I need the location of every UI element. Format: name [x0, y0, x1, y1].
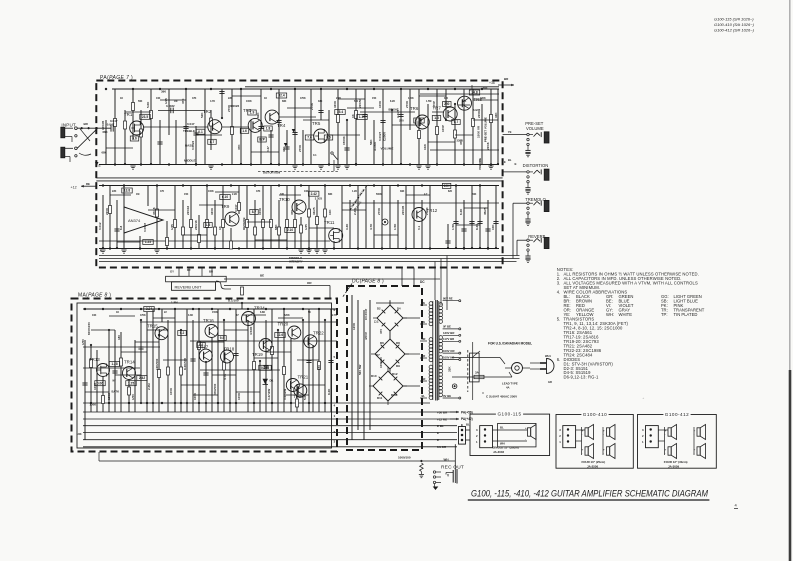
svg-text:220K: 220K	[477, 110, 481, 118]
svg-text:43K: 43K	[282, 146, 286, 152]
svg-text:G100-410: G100-410	[583, 412, 607, 417]
svg-text:+36: +36	[489, 81, 495, 85]
svg-text:TR24: TR24	[254, 306, 265, 311]
svg-text:TREBLE: TREBLE	[183, 129, 195, 133]
svg-text:250: 250	[444, 102, 450, 106]
svg-text:10K: 10K	[92, 314, 97, 317]
svg-text:0.6: 0.6	[132, 137, 137, 141]
svg-text:D.1/100: D.1/100	[228, 299, 239, 303]
svg-text:12K/500: 12K/500	[155, 358, 159, 370]
svg-text:2.2K: 2.2K	[336, 97, 341, 100]
svg-text:1/35: 1/35	[304, 224, 308, 230]
svg-text:5.6K: 5.6K	[146, 101, 150, 108]
svg-text:15K: 15K	[184, 193, 189, 196]
svg-text:DISTORTION: DISTORTION	[523, 163, 549, 168]
svg-text:BR: BR	[422, 354, 426, 358]
svg-text:1.06: 1.06	[416, 119, 422, 123]
svg-text:BL: BL	[500, 426, 504, 430]
svg-text:52K: 52K	[200, 112, 204, 118]
svg-text:RE: RE	[86, 182, 90, 186]
svg-text:150K VR: 150K VR	[476, 125, 480, 138]
svg-text:3.: 3.	[557, 281, 561, 286]
svg-text:10K: 10K	[156, 97, 161, 100]
svg-text:FOR U.S./CANADIAN MODEL: FOR U.S./CANADIAN MODEL	[488, 342, 532, 346]
svg-text:BA7K: BA7K	[112, 390, 120, 394]
svg-text:D10: D10	[371, 374, 377, 378]
svg-text:27K: 27K	[462, 100, 467, 103]
svg-text:100K: 100K	[258, 207, 262, 215]
svg-text:3.3/25: 3.3/25	[396, 109, 400, 118]
svg-text:560: 560	[354, 100, 359, 103]
svg-text:2.2M: 2.2M	[353, 208, 357, 215]
svg-text:0.220: 0.220	[261, 366, 269, 370]
svg-text:D3: D3	[374, 320, 378, 324]
svg-text:15K: 15K	[372, 97, 377, 100]
svg-text:4.7K: 4.7K	[369, 223, 373, 230]
svg-text:0.47/2W: 0.47/2W	[267, 389, 271, 400]
svg-text:PRE-SET VOLUME: PRE-SET VOLUME	[484, 117, 488, 142]
svg-text:4A: 4A	[506, 386, 510, 390]
svg-text:220/6: 220/6	[486, 142, 490, 150]
svg-text:4.7K: 4.7K	[210, 100, 215, 103]
svg-text:27DK: 27DK	[425, 206, 429, 215]
svg-text:BL: BL	[466, 423, 470, 427]
svg-text:100K: 100K	[378, 100, 382, 108]
svg-text:GR: GR	[422, 377, 426, 381]
svg-text:1.9: 1.9	[250, 111, 255, 115]
svg-text:0V BE: 0V BE	[443, 394, 451, 398]
svg-text:D1: D1	[270, 379, 274, 383]
svg-text:REVERB: REVERB	[242, 217, 246, 230]
svg-text:TR2: TR2	[203, 109, 212, 114]
svg-text:9.2: 9.2	[180, 331, 185, 335]
svg-text:9.8: 9.8	[220, 336, 225, 340]
svg-text:TR5: TR5	[312, 121, 321, 126]
svg-text:4.: 4.	[557, 290, 561, 295]
svg-text:45/25: 45/25	[483, 207, 487, 215]
svg-text:DC(PAGE 8 ): DC(PAGE 8 )	[352, 279, 384, 285]
svg-text:270K: 270K	[405, 100, 409, 108]
svg-text:8.2K/500: 8.2K/500	[183, 357, 187, 370]
svg-text:270K: 270K	[298, 144, 302, 152]
svg-text:68K: 68K	[274, 224, 278, 230]
svg-text:220: 220	[399, 119, 404, 123]
svg-text:G100, -115, -410, -412 GUITAR: G100, -115, -410, -412 GUITAR AMPLIFIER …	[471, 488, 708, 498]
svg-text:JA-3059: JA-3059	[668, 465, 679, 469]
svg-text:RE: RE	[422, 320, 426, 324]
svg-text:TR18: TR18	[224, 347, 235, 352]
svg-text:130V BR: 130V BR	[443, 331, 454, 335]
svg-text:68K: 68K	[103, 130, 108, 134]
svg-text:22K: 22K	[228, 97, 233, 100]
svg-text:VOLUME: VOLUME	[526, 126, 544, 131]
svg-text:3.3K: 3.3K	[188, 314, 193, 317]
svg-text:100K: 100K	[208, 190, 214, 193]
svg-text:VOLUME: VOLUME	[478, 158, 482, 170]
svg-text:0.6: 0.6	[326, 136, 331, 140]
svg-text:80V RE: 80V RE	[443, 297, 453, 301]
svg-text:1.5K: 1.5K	[393, 223, 397, 230]
svg-text:22K: 22K	[112, 190, 117, 193]
svg-text:47K: 47K	[256, 190, 261, 193]
svg-text:D4: D4	[397, 307, 401, 311]
svg-text:33K: 33K	[448, 366, 452, 372]
svg-text:G100-412: G100-412	[665, 412, 689, 417]
svg-text:5.: 5.	[557, 316, 561, 321]
svg-text:10K: 10K	[328, 209, 332, 215]
svg-text:7.6: 7.6	[307, 136, 312, 140]
svg-text:→: →	[642, 397, 645, 400]
svg-text:TR9: TR9	[221, 204, 230, 209]
svg-text:390: 390	[161, 90, 166, 94]
svg-text:1/50: 1/50	[131, 394, 135, 400]
svg-text:D9: D9	[396, 364, 400, 368]
svg-text:560K: 560K	[376, 193, 382, 196]
svg-text:BL: BL	[508, 158, 512, 162]
svg-text:MA(PAGE 8 ): MA(PAGE 8 )	[78, 293, 111, 299]
svg-text:8.2K: 8.2K	[475, 223, 479, 230]
svg-text:470K: 470K	[300, 97, 306, 100]
svg-text:100K: 100K	[93, 382, 97, 390]
svg-text:D7: D7	[376, 353, 380, 357]
svg-text:0.1: 0.1	[417, 225, 421, 230]
svg-text:2.10: 2.10	[287, 228, 293, 232]
svg-text:G100-410 (S/# 1026~): G100-410 (S/# 1026~)	[714, 22, 755, 27]
svg-text:1000/10: 1000/10	[379, 357, 383, 368]
svg-text:WH1: WH1	[545, 354, 551, 358]
svg-text:6.10: 6.10	[222, 195, 228, 199]
svg-text:6.2K: 6.2K	[459, 208, 463, 215]
svg-text:1000/100: 1000/100	[398, 455, 411, 459]
svg-text:/200V: /200V	[364, 332, 368, 340]
svg-text:0.06: 0.06	[97, 381, 103, 385]
svg-text:TR1: TR1	[124, 112, 133, 117]
svg-text:GY: GY	[170, 270, 174, 274]
svg-text:47K: 47K	[192, 97, 197, 100]
svg-text:4.7K: 4.7K	[223, 373, 227, 380]
svg-text:390: 390	[444, 97, 449, 100]
svg-text:1K: 1K	[264, 97, 267, 100]
svg-text:PA(+42): PA(+42)	[461, 417, 473, 421]
svg-text:120K: 120K	[352, 322, 356, 330]
svg-text:E: E	[100, 249, 102, 253]
svg-text:RF: RF	[187, 268, 191, 272]
svg-text:0.1: 0.1	[313, 153, 317, 157]
svg-text:0.012: 0.012	[98, 222, 102, 230]
svg-text:68K: 68K	[328, 193, 333, 196]
svg-text:10K: 10K	[77, 432, 82, 436]
svg-text:TR19: TR19	[252, 352, 263, 357]
svg-text:820K: 820K	[284, 314, 290, 317]
svg-text:10K: 10K	[304, 190, 309, 193]
svg-text:1K: 1K	[120, 97, 123, 100]
svg-text:+12 RE: +12 RE	[437, 417, 447, 421]
svg-text:180K: 180K	[480, 97, 486, 100]
svg-text:23.5: 23.5	[142, 115, 148, 119]
svg-text:D8: D8	[396, 341, 400, 345]
svg-text:56K: 56K	[138, 100, 143, 103]
svg-text:180: 180	[117, 335, 121, 340]
svg-text:INTENSITY: INTENSITY	[289, 260, 303, 264]
svg-text:TR6: TR6	[410, 106, 419, 111]
svg-text:TP:: TP:	[661, 312, 668, 317]
svg-text:56K: 56K	[369, 139, 373, 145]
svg-text:D2: D2	[377, 307, 381, 311]
svg-text:G100-115: G100-115	[497, 412, 521, 417]
svg-text:0.7: 0.7	[454, 120, 459, 124]
svg-text:D11: D11	[377, 396, 383, 400]
svg-text:82P: 82P	[259, 138, 266, 142]
svg-text:330K: 330K	[333, 100, 337, 108]
svg-text:E: E	[437, 438, 439, 442]
svg-text:INPUT: INPUT	[61, 123, 76, 128]
svg-text:0.047: 0.047	[234, 204, 238, 212]
svg-text:5.6K: 5.6K	[303, 393, 307, 400]
svg-text:470P: 470P	[432, 101, 436, 108]
svg-text:JA-2556: JA-2556	[587, 465, 598, 469]
svg-text:C 2L0047 450AC 250V: C 2L0047 450AC 250V	[486, 395, 517, 399]
svg-text:MIDDLE: MIDDLE	[184, 158, 196, 162]
svg-text:270K: 270K	[377, 207, 381, 215]
svg-text:0.0022: 0.0022	[166, 104, 175, 108]
svg-text:23D/16: 23D/16	[194, 220, 198, 230]
svg-text:TIN PLATED: TIN PLATED	[674, 312, 698, 317]
svg-text:220/16: 220/16	[186, 205, 190, 215]
svg-text:0.47/2W: 0.47/2W	[283, 389, 287, 400]
svg-text:JA-3002: JA-3002	[493, 450, 504, 454]
svg-text:6.8K: 6.8K	[260, 311, 265, 314]
svg-text:10K: 10K	[491, 224, 495, 230]
svg-text:1.25: 1.25	[145, 240, 151, 244]
svg-text:1N GR: 1N GR	[437, 445, 447, 449]
svg-text:A100K: A100K	[373, 141, 377, 151]
svg-text:+12: +12	[71, 186, 77, 190]
svg-text:470: 470	[160, 190, 165, 193]
svg-text:TR22: TR22	[313, 331, 324, 336]
svg-text:1.2K: 1.2K	[352, 190, 357, 193]
svg-text:0.0022: 0.0022	[191, 140, 195, 150]
svg-text:1.3: 1.3	[434, 116, 439, 120]
svg-text:220K: 220K	[105, 207, 109, 215]
svg-text:TR16: TR16	[203, 318, 214, 323]
svg-text:2.2M: 2.2M	[147, 383, 151, 390]
svg-text:47K: 47K	[459, 139, 463, 145]
svg-text:BR: BR	[209, 270, 213, 274]
svg-text:117V BR: 117V BR	[443, 337, 454, 341]
svg-text:100K: 100K	[246, 100, 252, 103]
svg-text:47R/500: 47R/500	[213, 383, 217, 395]
svg-text:REVERB UNIT: REVERB UNIT	[175, 284, 202, 289]
svg-text:1M: 1M	[136, 193, 139, 196]
svg-text:0.47: 0.47	[266, 146, 270, 152]
svg-text:100K: 100K	[193, 392, 197, 400]
svg-text:WH: WH	[444, 458, 449, 462]
svg-text:330K: 330K	[210, 207, 214, 215]
svg-text:TR14: TR14	[124, 360, 135, 365]
svg-text:AN374: AN374	[128, 218, 141, 223]
svg-text:PA(PAGE 7 ): PA(PAGE 7 )	[100, 75, 133, 81]
svg-text:8.2K: 8.2K	[390, 100, 395, 103]
svg-text:68K: 68K	[102, 151, 107, 155]
svg-text:8.7: 8.7	[252, 210, 257, 214]
svg-text:0.0027: 0.0027	[378, 131, 382, 141]
svg-text:8.7: 8.7	[210, 140, 215, 144]
svg-text:BE: BE	[260, 274, 264, 278]
svg-text:820: 820	[448, 190, 453, 193]
svg-text:TREMOLO: TREMOLO	[289, 256, 302, 260]
svg-text:10K: 10K	[444, 184, 451, 188]
svg-text:1/50: 1/50	[81, 339, 85, 345]
svg-text:470K: 470K	[140, 314, 146, 317]
svg-text:1500K: 1500K	[342, 135, 346, 145]
svg-text:OR: OR	[422, 337, 426, 341]
svg-text:0.0022: 0.0022	[230, 104, 240, 108]
svg-text:TR10: TR10	[279, 197, 290, 202]
svg-text:2.42: 2.42	[311, 192, 317, 196]
svg-text:1/25: 1/25	[170, 224, 174, 230]
svg-text:56K: 56K	[472, 193, 477, 196]
svg-text:+36 BR: +36 BR	[437, 410, 448, 414]
svg-text:1.6: 1.6	[242, 129, 247, 133]
svg-text:LEAD TYPE: LEAD TYPE	[502, 382, 518, 386]
svg-text:1.28: 1.28	[111, 362, 117, 366]
svg-text:100K: 100K	[237, 392, 241, 400]
svg-text:C250V: C250V	[383, 132, 387, 141]
svg-text:-: -	[525, 437, 526, 441]
svg-text:47K: 47K	[290, 209, 294, 215]
svg-text:WH:: WH:	[606, 312, 614, 317]
svg-text:1M: 1M	[174, 100, 177, 103]
svg-text:GR: GR	[548, 380, 552, 384]
svg-text:47K: 47K	[181, 98, 185, 104]
svg-text:100P: 100P	[441, 125, 445, 132]
svg-text:3.3/25: 3.3/25	[315, 197, 323, 201]
svg-text:TREMOLO: TREMOLO	[525, 197, 546, 202]
svg-text:1K: 1K	[116, 311, 119, 314]
svg-text:D6-9,12-13: RG-1: D6-9,12-13: RG-1	[564, 375, 599, 380]
svg-text:C0.0047: C0.0047	[364, 308, 368, 320]
svg-text:120K: 120K	[408, 97, 414, 100]
svg-text:1.25: 1.25	[128, 381, 134, 385]
svg-text:REVERB: REVERB	[528, 234, 545, 239]
svg-text:E: E	[515, 162, 517, 166]
svg-text:100K: 100K	[169, 387, 173, 395]
svg-text:TR15: TR15	[147, 324, 158, 329]
svg-text:TR20: TR20	[278, 322, 289, 327]
svg-text:4.5/90: 4.5/90	[249, 326, 253, 335]
svg-text:E: E	[437, 431, 439, 435]
svg-text:150: 150	[317, 365, 321, 370]
svg-text:2.2K: 2.2K	[232, 193, 237, 196]
svg-text:DC: DC	[420, 280, 425, 284]
svg-text:2.42: 2.42	[139, 376, 145, 380]
svg-text:220/35: 220/35	[401, 205, 405, 215]
svg-text:47K: 47K	[237, 144, 241, 150]
svg-text:13.8: 13.8	[124, 189, 130, 193]
svg-text:G100-412 (S/# 1026~): G100-412 (S/# 1026~)	[714, 28, 755, 33]
svg-text:E: E	[504, 160, 506, 164]
svg-text:D13: D13	[391, 393, 397, 397]
svg-text:39K: 39K	[400, 190, 405, 193]
svg-text:68K: 68K	[282, 100, 287, 103]
svg-text:1.5M: 1.5M	[426, 100, 431, 103]
svg-text:0.0047: 0.0047	[143, 222, 147, 232]
svg-text:15.4: 15.4	[337, 110, 343, 114]
svg-text:470: 470	[379, 329, 383, 334]
svg-text:D12: D12	[392, 372, 398, 376]
svg-text:1.5K: 1.5K	[451, 223, 455, 230]
svg-text:3.3K: 3.3K	[345, 223, 349, 230]
svg-text:1.8: 1.8	[266, 127, 271, 131]
svg-text:VOLUME: VOLUME	[381, 147, 394, 151]
svg-text:100K: 100K	[90, 403, 97, 407]
svg-text:100V OR: 100V OR	[443, 349, 455, 353]
svg-text:G100-115 (S/# 1026~): G100-115 (S/# 1026~)	[714, 17, 754, 22]
svg-text:82K: 82K	[256, 112, 260, 118]
svg-text:TR13: TR13	[89, 357, 100, 362]
svg-text:REC OUT: REC OUT	[441, 465, 464, 471]
svg-text:1.8M: 1.8M	[171, 301, 178, 305]
svg-text:8.6: 8.6	[199, 343, 204, 347]
svg-text:6.: 6.	[557, 357, 561, 362]
svg-text:D6: D6	[380, 341, 384, 345]
svg-text:+: +	[525, 426, 527, 430]
svg-text:E BL: E BL	[437, 424, 444, 428]
svg-text:32.4: 32.4	[278, 94, 284, 98]
svg-text:10/6: 10/6	[423, 144, 427, 150]
svg-text:0.047: 0.047	[187, 122, 195, 126]
svg-text:0.1: 0.1	[198, 130, 203, 134]
svg-text:220/50: 220/50	[358, 98, 362, 108]
svg-text:270K: 270K	[310, 102, 314, 110]
svg-text:YE: YE	[508, 130, 512, 134]
svg-text:34.8: 34.8	[471, 91, 477, 95]
svg-text:47/16: 47/16	[152, 207, 156, 215]
svg-text:560 5W: 560 5W	[358, 364, 362, 375]
svg-text:TR21: TR21	[298, 375, 309, 380]
svg-text:BL: BL	[422, 394, 426, 398]
svg-text:3.24: 3.24	[146, 307, 152, 311]
svg-text:WHITE: WHITE	[619, 312, 633, 317]
svg-text:TR4: TR4	[277, 123, 286, 128]
svg-text:150K: 150K	[212, 311, 218, 314]
svg-text:TR11: TR11	[324, 220, 335, 225]
svg-text:6.8: 6.8	[119, 225, 123, 230]
svg-text:NF: NF	[113, 380, 117, 383]
svg-text:330: 330	[280, 193, 285, 196]
svg-text:1.15: 1.15	[359, 115, 365, 119]
svg-text:600V/150: 600V/150	[87, 322, 91, 335]
svg-text:33/25: 33/25	[312, 207, 316, 215]
svg-text:33K: 33K	[318, 100, 323, 103]
svg-text:180K: 180K	[107, 392, 111, 400]
svg-text:12.6: 12.6	[277, 333, 283, 337]
svg-text:1.6: 1.6	[206, 223, 211, 227]
svg-text:0F BE: 0F BE	[443, 325, 451, 329]
svg-text:RE: RE	[422, 301, 426, 305]
svg-text:8.2K: 8.2K	[327, 388, 331, 395]
svg-text:33K: 33K	[494, 112, 498, 118]
